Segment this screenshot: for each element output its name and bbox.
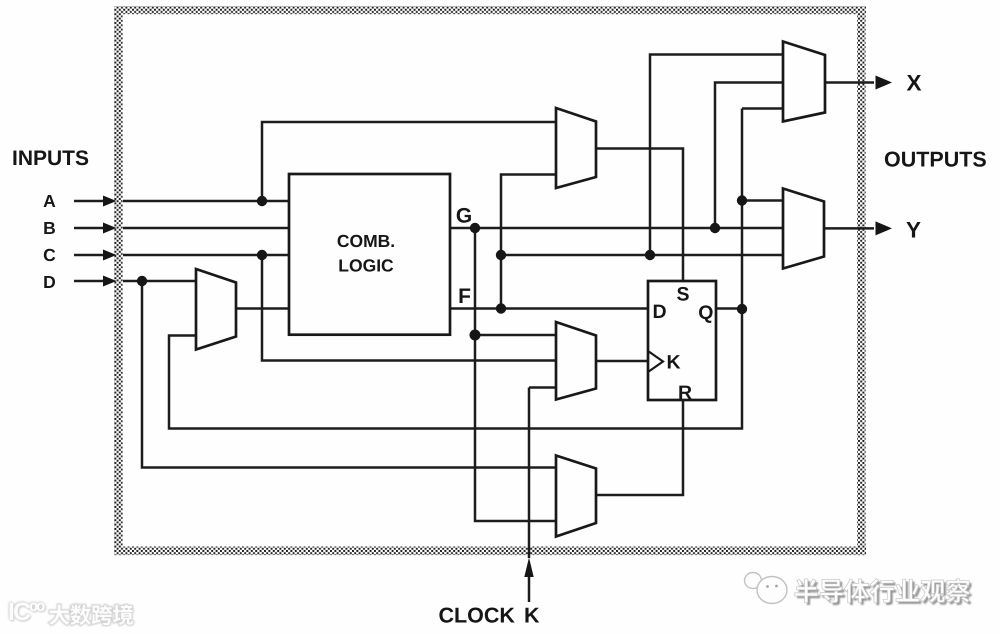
junction node Q (737, 304, 747, 314)
svg-text:CLOCK: CLOCK (439, 603, 516, 627)
svg-text:X: X (907, 70, 922, 95)
wire mux M1 output to flip-flop S (596, 149, 683, 282)
wire output Y (825, 227, 874, 230)
arrowhead input A (103, 196, 117, 207)
junction node F (496, 303, 506, 313)
chip boundary dotted border (114, 6, 866, 555)
mux MX (783, 42, 825, 122)
wire clock riser to mux M3 bottom input (529, 388, 556, 559)
svg-text:Y: Y (906, 218, 921, 243)
arrowhead output X (876, 76, 893, 90)
wire mux M4 output to flip-flop R (596, 400, 683, 495)
wire node G to mux MY middle input (450, 227, 783, 230)
arrowhead clock (524, 558, 533, 578)
arrowhead input B (103, 223, 117, 234)
svg-text:K: K (666, 352, 680, 374)
wire mux M2 output to comb logic (236, 307, 289, 310)
wire mux M3 output to flip-flop K (596, 360, 648, 363)
svg-text:OUTPUTS: OUTPUTS (884, 148, 987, 172)
svg-text:G: G (456, 205, 472, 228)
wire input A (74, 200, 289, 203)
svg-text:S: S (676, 283, 689, 305)
wire input C (74, 254, 289, 257)
wire input B (74, 227, 289, 230)
wire node D to mux M4 top input (142, 281, 556, 468)
wire Q to mux MY top input (742, 199, 783, 202)
comb logic block (289, 174, 450, 335)
arrowhead output Y (876, 221, 893, 235)
wire node F to flip-flop D (450, 307, 648, 310)
wire node F riser to mux M1 bottom input (501, 175, 556, 309)
svg-text:R: R (678, 382, 692, 404)
junction G riser mid (470, 330, 481, 341)
svg-text:D: D (43, 272, 56, 292)
arrowhead input C (103, 250, 117, 261)
junction Q top (737, 195, 747, 205)
junction G line x715 (710, 223, 720, 233)
junction node F riser top (496, 250, 506, 260)
watermark right text 半导体行业观察 (795, 579, 973, 606)
svg-text:D: D (652, 301, 666, 323)
wire flip-flop Q stub (716, 307, 742, 310)
svg-text:K: K (524, 603, 540, 627)
svg-text:Q: Q (698, 302, 713, 324)
wire input D (74, 280, 196, 283)
junction node A (257, 196, 267, 206)
arrowhead input D (103, 276, 117, 287)
svg-text:F: F (458, 285, 471, 308)
mux M1 (556, 108, 596, 188)
mux M3 (556, 322, 596, 400)
svg-text:B: B (43, 218, 56, 238)
wire Q feedback to mux M2 bottom input (169, 309, 742, 429)
watermark wechat bubbles (745, 573, 788, 604)
junction net F x650 (645, 250, 655, 260)
svg-text:C: C (43, 245, 56, 265)
wire G riser branch to mux M3 top input (475, 334, 556, 337)
wire G line riser to mux MX middle input (715, 83, 783, 229)
wire net F to mux MY bottom input (501, 254, 783, 257)
watermark left logo IC00 (8, 598, 43, 627)
flip-flop U1 (648, 281, 716, 400)
wire Q riser to mux MX bottom input (742, 109, 783, 310)
wire clock stem below arrow (528, 577, 531, 602)
flip-flop clock wedge (648, 351, 663, 372)
mux M2 (196, 269, 236, 350)
wire node C to mux M3 middle input (262, 255, 556, 361)
mux MY (783, 189, 824, 269)
svg-text:A: A (43, 191, 56, 211)
watermark left text 大数跨境 (49, 605, 133, 625)
junction node G (470, 223, 480, 233)
junction node D (137, 276, 147, 286)
svg-text:LOGIC: LOGIC (338, 256, 394, 276)
wire node G riser to mux M4 bottom input (475, 228, 556, 521)
svg-text:COMB.: COMB. (337, 231, 395, 251)
wire net F riser to mux MX top input (650, 55, 783, 256)
wire output X (825, 81, 874, 84)
junction node C (257, 250, 267, 260)
svg-text:INPUTS: INPUTS (12, 147, 89, 170)
wire node A to mux M1 top input (262, 122, 556, 201)
mux M4 (556, 456, 596, 537)
